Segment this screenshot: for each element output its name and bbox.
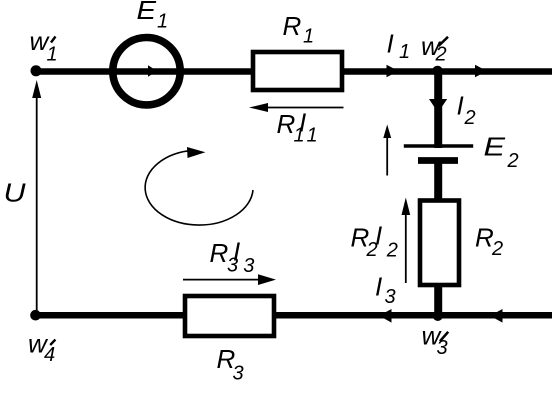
svg-text:I: I (375, 221, 382, 251)
arrow RI2 (upwards, left of R2) (402, 198, 411, 284)
label w2 (421, 31, 448, 66)
node w3 (433, 311, 443, 321)
label w1 (30, 26, 58, 66)
emf arrow of E2 (up, left of battery) (383, 125, 391, 176)
svg-text:I: I (233, 236, 240, 266)
label w4 (28, 329, 55, 366)
label R2 (475, 223, 503, 261)
svg-text:R: R (475, 223, 494, 253)
voltage source E1 (113, 37, 180, 104)
node w2 (432, 66, 443, 77)
node w1 (31, 65, 42, 76)
svg-text:I: I (375, 272, 382, 302)
svg-text:I: I (457, 91, 464, 121)
svg-text:3: 3 (385, 286, 396, 308)
svg-text:2: 2 (435, 44, 447, 66)
current arrow I2 (down) (429, 99, 447, 113)
svg-text:R: R (277, 109, 296, 139)
label E1 (137, 0, 169, 33)
resistor R2 (420, 201, 459, 286)
wire R2 to w3 (434, 285, 442, 315)
current arrow I1 on top wire (387, 65, 399, 77)
svg-text:R: R (283, 11, 302, 41)
source E2 short thick plate (418, 157, 458, 164)
svg-text:3: 3 (437, 337, 448, 359)
label I1 (387, 29, 411, 64)
svg-text:2: 2 (507, 150, 519, 172)
svg-text:4: 4 (44, 344, 55, 366)
svg-text:I: I (387, 29, 394, 59)
svg-text:2: 2 (491, 238, 503, 260)
svg-text:2: 2 (386, 240, 398, 262)
svg-text:E: E (484, 132, 506, 162)
label w3 (422, 321, 449, 360)
current arrow on bottom wire left of w3 (pointing left) (379, 309, 392, 323)
resistor R3 (185, 296, 274, 336)
svg-text:1: 1 (47, 44, 58, 66)
arrow RI3 (rightwards above R3) (183, 274, 276, 285)
loop direction arrow (clockwise ellipse arc) (145, 147, 253, 225)
source E2 long plate (404, 144, 473, 148)
wire E2 to R2 (434, 160, 442, 200)
current arrow on bottom wire right of w3 (pointing left) (490, 309, 503, 323)
svg-text:1: 1 (307, 125, 318, 147)
svg-text:R: R (210, 238, 229, 268)
wire w2 down to E2 (434, 71, 442, 148)
label R3 (217, 344, 244, 384)
label R1I1 (277, 108, 318, 147)
resistor R1 (253, 52, 342, 90)
node w4 (30, 310, 41, 321)
svg-text:2: 2 (464, 107, 476, 129)
svg-text:I: I (299, 108, 306, 138)
label I3 (375, 272, 396, 309)
label I2 (457, 91, 476, 130)
svg-text:3: 3 (233, 362, 244, 384)
wire bottom w4 to right edge (35, 312, 552, 319)
svg-text:E: E (137, 0, 157, 25)
voltage arrow U (w4 up to w1) (32, 80, 41, 315)
svg-text:1: 1 (303, 26, 314, 48)
label R2I2 (351, 221, 398, 262)
label R1 (283, 11, 315, 48)
svg-text:1: 1 (157, 11, 168, 33)
svg-text:3: 3 (243, 255, 254, 277)
arrow RI1 (leftwards under R1) (249, 103, 344, 112)
svg-text:1: 1 (399, 41, 410, 63)
label E2 (484, 132, 519, 173)
svg-text:U: U (4, 178, 26, 208)
wire top w1 to right edge (37, 68, 552, 75)
label R3I3 (210, 236, 255, 277)
current arrow right of w2 on top wire (475, 65, 487, 77)
